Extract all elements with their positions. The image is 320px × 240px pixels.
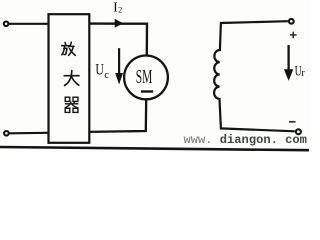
arrowhead I2 <box>115 19 124 28</box>
label 放 <box>62 42 76 55</box>
svg-text:r: r <box>301 68 305 79</box>
voltage arrow Uc <box>118 48 120 76</box>
label 器 <box>65 97 79 112</box>
motor SM <box>124 56 168 100</box>
svg-text:2: 2 <box>118 4 122 14</box>
minus mark in SM <box>141 90 153 92</box>
svg-text:c: c <box>104 69 109 81</box>
input terminal (top-left) <box>4 22 9 27</box>
inductor L (generator winding) with connecting loop <box>214 21 295 131</box>
amplifier block U1 放大器 <box>49 14 90 143</box>
wire from motor bottom to amplifier (bottom) <box>89 100 146 132</box>
wire from amplifier to motor (top) <box>89 24 147 56</box>
svg-text:www. diangon. com: www. diangon. com <box>184 133 307 147</box>
wire top-left <box>9 23 49 25</box>
voltage arrow Ur <box>287 45 289 71</box>
svg-text:U: U <box>95 62 104 79</box>
terminal (top-right) <box>289 19 294 24</box>
input terminal (bottom-left) <box>4 131 9 136</box>
wire bottom-left <box>9 132 48 135</box>
plus mark <box>290 32 297 39</box>
svg-text:SM: SM <box>136 67 153 88</box>
terminal (bottom-right) <box>296 129 301 134</box>
label 大 <box>64 71 79 86</box>
minus mark (bottom-right) <box>289 121 296 123</box>
bottom border line <box>0 147 309 150</box>
